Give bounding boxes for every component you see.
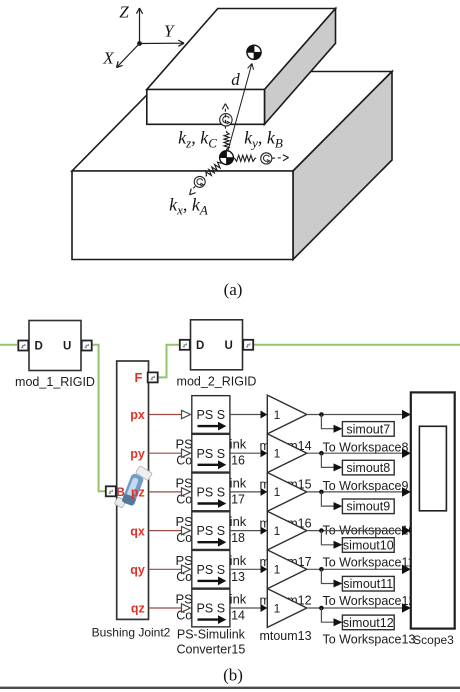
svg-text:simout8: simout8	[346, 461, 390, 475]
svg-text:D: D	[35, 341, 43, 353]
svg-text:D: D	[196, 340, 204, 352]
svg-text:qx: qx	[130, 524, 145, 538]
svg-text:PS S: PS S	[197, 408, 226, 422]
svg-text:simout10: simout10	[343, 538, 394, 552]
svg-text:U: U	[225, 340, 233, 352]
svg-text:px: px	[130, 408, 145, 422]
svg-text:qz: qz	[131, 602, 145, 616]
svg-text:Y: Y	[164, 22, 175, 41]
svg-text:PS S: PS S	[197, 563, 226, 577]
svg-text:qy: qy	[130, 563, 145, 577]
svg-text:Z: Z	[119, 3, 129, 22]
svg-text:simout7: simout7	[346, 422, 390, 436]
svg-text:To Workspace8: To Workspace8	[323, 441, 409, 455]
svg-text:PS-Simulink: PS-Simulink	[177, 627, 246, 641]
svg-text:py: py	[130, 447, 145, 461]
svg-text:B: B	[116, 485, 125, 499]
svg-text:1: 1	[274, 485, 281, 499]
svg-text:1: 1	[274, 524, 281, 538]
svg-text:Scope3: Scope3	[413, 633, 454, 647]
svg-text:To Workspace9: To Workspace9	[323, 479, 409, 493]
svg-text:(a): (a)	[224, 280, 243, 299]
svg-text:d: d	[231, 70, 240, 89]
svg-text:To Workspace13: To Workspace13	[323, 633, 416, 647]
svg-text:1: 1	[274, 601, 281, 615]
svg-text:mtoum13: mtoum13	[259, 629, 311, 643]
svg-text:simout9: simout9	[346, 500, 390, 514]
svg-text:X: X	[102, 49, 114, 68]
svg-text:Converter15: Converter15	[177, 642, 246, 656]
svg-text:U: U	[63, 341, 71, 353]
svg-text:mod_2_RIGID: mod_2_RIGID	[177, 374, 257, 388]
svg-text:To Workspace12: To Workspace12	[323, 594, 416, 608]
svg-text:PS S: PS S	[197, 602, 226, 616]
svg-text:PS S: PS S	[197, 486, 226, 500]
svg-text:simout11: simout11	[343, 577, 393, 591]
svg-text:1: 1	[274, 447, 281, 461]
svg-text:simout12: simout12	[343, 616, 394, 630]
svg-text:PS S: PS S	[197, 524, 226, 538]
svg-text:1: 1	[274, 563, 281, 577]
svg-text:PS S: PS S	[197, 447, 226, 461]
svg-text:F: F	[135, 370, 143, 385]
svg-text:(b): (b)	[223, 666, 243, 685]
svg-text:mod_1_RIGID: mod_1_RIGID	[15, 375, 95, 389]
svg-text:1: 1	[274, 408, 281, 422]
svg-text:To Workspace11: To Workspace11	[323, 556, 415, 570]
svg-text:pz: pz	[131, 486, 145, 500]
svg-text:Bushing Joint2: Bushing Joint2	[92, 626, 171, 640]
